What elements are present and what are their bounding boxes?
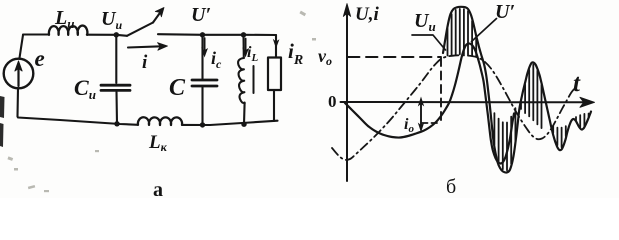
arrow iR head [273, 39, 280, 49]
scan noise marks [0, 96, 5, 147]
svg-text:iL: iL [247, 44, 258, 64]
svg-text:C: C [169, 75, 186, 101]
leader line for Uu label [412, 35, 446, 50]
svg-text:0: 0 [328, 92, 337, 111]
wire bottom rail right [182, 121, 278, 125]
wire iL branch + arrow [242, 35, 244, 58]
svg-text:ic: ic [211, 48, 222, 71]
arrow ic head [201, 48, 208, 58]
junction dot Cu-bottom [114, 121, 119, 126]
dashed vertical at switch-open time [440, 58, 442, 123]
i0 measuring arrow [420, 102, 422, 128]
svg-text:Lи: Lи [54, 7, 74, 31]
graph t-axis [341, 101, 584, 103]
current arrow i [128, 46, 161, 47]
junction dot C-bottom [200, 122, 205, 127]
curve Uu (slow component, solid) [345, 44, 514, 164]
capacitor Cu [101, 84, 130, 87]
source arrow (inside circle) [17, 66, 19, 86]
y-axis arrowhead [343, 4, 350, 17]
dashed level v0 [348, 56, 441, 58]
switch arrow [153, 14, 160, 23]
svg-text:vo: vo [318, 46, 332, 68]
dashed short horizontal at i0 level [422, 122, 441, 124]
svg-text:io: io [404, 116, 414, 135]
node Uu junction dot [114, 32, 119, 37]
wire Cu branch lower [115, 92, 118, 124]
svg-text:U′: U′ [495, 1, 515, 23]
resistor R box [268, 58, 281, 91]
hatching between curves [448, 9, 589, 170]
switch blade [127, 23, 153, 36]
wire top rail right section [158, 33, 276, 36]
svg-text:а: а [153, 179, 163, 198]
svg-text:Cи: Cи [74, 75, 96, 102]
wire C branch lower [201, 88, 203, 125]
svg-text:iR: iR [288, 39, 303, 68]
graph y-axis [346, 9, 348, 181]
svg-text:U′: U′ [191, 4, 211, 26]
svg-text:Lк: Lк [148, 132, 168, 154]
inductor Lu (top rail) [49, 26, 88, 35]
t-axis arrowhead [580, 97, 595, 107]
svg-text:б: б [446, 176, 456, 198]
svg-text:i: i [142, 52, 148, 73]
source e (AC generator circle) [4, 59, 34, 89]
svg-text:U,i: U,i [355, 4, 379, 25]
junction dot iL-bottom [241, 122, 246, 127]
inductor core bar [253, 66, 255, 93]
inductor coil (iL branch) [238, 58, 245, 104]
wire iR branch bottom [273, 90, 275, 121]
wire top-left segment [23, 33, 49, 35]
capacitor C [192, 79, 217, 82]
wire C branch upper + ic arrow shaft [201, 35, 203, 79]
node iL-top junction dot [241, 32, 246, 37]
wire top rail to node Uu [87, 35, 127, 36]
dash-dot midline curve [332, 55, 575, 160]
svg-text:e: e [35, 46, 45, 71]
wire iR branch top + corner [275, 35, 277, 58]
wire Cu branch upper [115, 35, 117, 83]
svg-text:Uи: Uи [101, 8, 122, 32]
curve U' (fast ringing, solid) [443, 7, 591, 173]
wire iL branch lower [243, 103, 246, 124]
inductor Lk (bottom rail) [138, 117, 182, 125]
node C-top junction dot [200, 32, 205, 37]
wire source bottom lead [16, 88, 19, 116]
svg-text:t: t [573, 70, 581, 97]
svg-text:Uи: Uи [414, 10, 436, 34]
wire bottom rail [18, 117, 139, 125]
leader line for U' label [472, 19, 497, 42]
wire left vertical (source top lead) [20, 35, 24, 58]
